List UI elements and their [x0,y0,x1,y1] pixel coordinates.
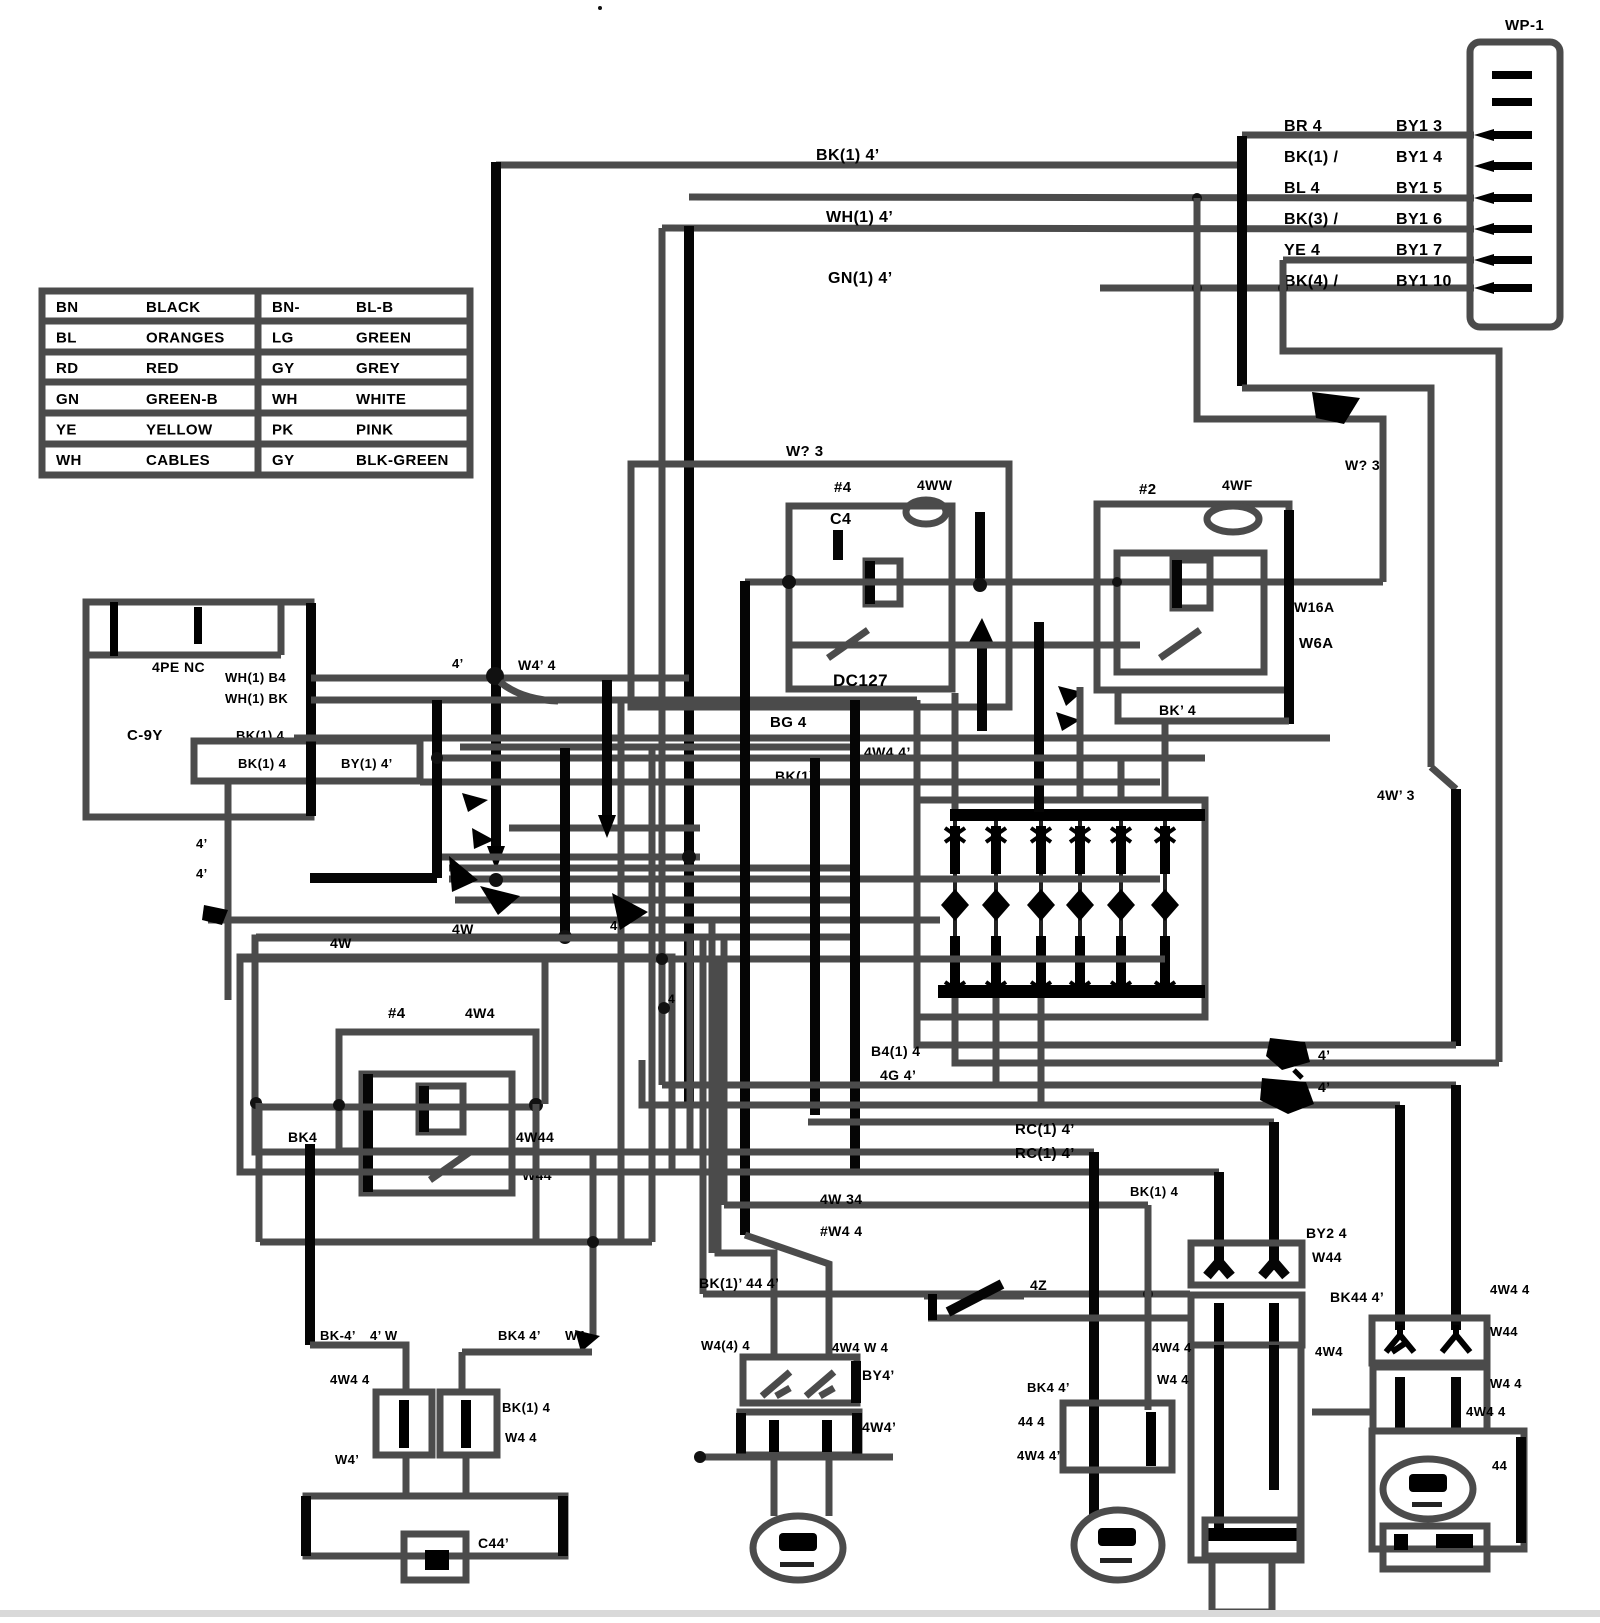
net pin7 drop [1283,260,1499,1062]
svg-text:GREY: GREY [356,360,400,377]
motor M2 body [1074,1510,1162,1580]
bus y937 [256,934,855,941]
svg-text:BK4 4’: BK4 4’ [498,1328,541,1343]
drop x1094 thick [1089,1152,1099,1515]
lever switch post [928,1294,937,1320]
relay1 outer box [631,464,1009,707]
svg-text:BY4’: BY4’ [862,1367,895,1383]
svg-text:44: 44 [1492,1458,1508,1473]
lamp C bottom bar [1204,1528,1299,1541]
motor M3 housing thick R [1516,1437,1526,1543]
wire y738 [294,735,1330,742]
fuse E box [1373,1367,1487,1431]
relay3 body [362,1074,512,1193]
svg-text:RC(1) 4’: RC(1) 4’ [1015,1121,1075,1138]
junction bm L [694,1451,706,1463]
connector pin 7 bar [1492,256,1532,264]
drop x462 [459,1352,466,1392]
wire y1318 [1024,1315,1191,1322]
fuse1 bracket [376,1392,432,1455]
svg-text:4W’ 3: 4W’ 3 [1377,787,1415,803]
svg-text:4W 34: 4W 34 [820,1191,862,1207]
svg-text:BN: BN [56,299,78,316]
drop x1274 to switchA [1269,1122,1279,1270]
svg-text:BK(1) /: BK(1) / [1284,149,1339,166]
svg-text:BK44 4’: BK44 4’ [1330,1289,1384,1305]
junction blob at x1340 corner [1312,392,1360,424]
junction tick WR [1294,1070,1302,1078]
svg-text:4Z: 4Z [1030,1277,1047,1293]
svg-text:GREEN-B: GREEN-B [146,391,218,408]
wire WH(1) long to pin5 [689,197,1474,198]
svg-text:BY2 4: BY2 4 [1306,1225,1347,1241]
svg-text:W4 4: W4 4 [1157,1372,1189,1387]
wire y721 under relay2 [1118,690,1289,721]
drop x259 below relay3 [256,1103,263,1242]
relay2 body [1117,553,1264,672]
table column divider [255,291,262,475]
stray mark top [598,6,602,10]
relay1 coil [866,561,900,604]
relay1 right post [977,630,987,731]
fuse m2 bar [1146,1412,1156,1466]
relay1 right post arrow [968,618,994,644]
drop fuse1 out [403,1455,410,1496]
svg-text:BL-B: BL-B [356,299,393,316]
lever switch blade [948,1284,1002,1312]
svg-text:DC127: DC127 [833,671,888,690]
relay1 coil bar [865,561,875,604]
arrow end x607 [598,815,616,838]
svg-text:BK(1) 4: BK(1) 4 [238,756,287,771]
svg-text:BR 4: BR 4 [1284,118,1322,135]
fuse E bar 2 [1451,1377,1461,1428]
svg-text:4W4 4: 4W4 4 [1466,1404,1506,1419]
diode column 4 [1066,821,1094,996]
left unit inner top divider [86,652,281,659]
matrix col5 stub up [1118,758,1125,800]
relay2 coil [1173,560,1210,608]
drop x593 [590,1152,597,1338]
svg-text:GREEN: GREEN [356,330,411,347]
matrix col3 stub [1038,998,1045,1105]
svg-text:CABLES: CABLES [146,452,210,469]
wire y1242 [260,1239,652,1246]
junction blob x1080 a [1058,686,1082,706]
lever switch base [924,1296,1024,1318]
sensor blob [425,1550,449,1570]
lamp C bottom frame [1205,1520,1300,1556]
wire y1412 stub [1312,1409,1373,1416]
table row divider 4 [42,410,470,417]
left unit thick right edge [306,603,316,816]
svg-text:GY: GY [272,360,294,377]
relay1 right top post [975,512,985,588]
svg-text:4W4: 4W4 [1315,1344,1343,1359]
svg-text:W4(4) 4: W4(4) 4 [701,1338,750,1353]
tangle junction d [682,850,696,864]
bottom-left box [306,1496,565,1556]
svg-text:YELLOW: YELLOW [146,421,213,438]
junction y582 x980 [973,578,987,592]
junction W6-x1283 [1278,283,1288,293]
table row divider 2 [42,349,470,356]
svg-text:W4’: W4’ [335,1452,359,1467]
relay3 thick left edge [363,1074,373,1192]
svg-text:W4’ 4: W4’ 4 [518,657,556,673]
svg-text:WHITE: WHITE [356,391,406,408]
junction W4-x1242 [1237,224,1247,234]
svg-text:4’: 4’ [196,836,208,851]
drop x718 jog to x774 [718,959,774,1357]
svg-text:4W4 4: 4W4 4 [1490,1282,1530,1297]
bus y920 [208,917,940,924]
connector pin 3 bar [1492,131,1532,139]
svg-text:BK(1)’ 44 4’: BK(1)’ 44 4’ [699,1275,779,1291]
jog x1429 to x1456 [1431,767,1456,789]
wire y1157 to x1219 [255,1169,1219,1176]
svg-text:BY1 3: BY1 3 [1396,118,1442,135]
svg-text:BL: BL [56,330,77,347]
wire BK(1) row1 to pin3 [1242,132,1474,139]
svg-text:BG 4: BG 4 [770,714,807,731]
svg-text:#4: #4 [834,479,852,496]
left unit lower box [194,741,420,781]
junction blob x228 [202,905,228,925]
junction x662 y1010 [658,1002,670,1014]
svg-text:W4: W4 [565,1328,586,1343]
relay1 left post [833,530,843,560]
switch bm box [743,1357,857,1403]
svg-text:4: 4 [668,992,675,1006]
svg-text:YE: YE [56,421,77,438]
drop bm motor R [826,1455,833,1516]
relay2 coil bar [1172,560,1182,608]
bus y1122 [808,1119,1274,1126]
drop x712 [709,920,716,1253]
wire y582 through coil [745,579,1383,586]
relay1 body [789,506,952,689]
svg-text:4’: 4’ [1318,1047,1330,1063]
wire YE(1) to pin7 [1283,257,1474,264]
motor M3 dash [1412,1502,1442,1507]
wire color code table frame [42,291,470,475]
relay3 outer box B [240,957,672,1172]
connector pin 5 arrow [1474,192,1494,204]
svg-text:BK4 4’: BK4 4’ [1027,1380,1070,1395]
connector pin 8 bar [1492,284,1532,292]
svg-text:4’: 4’ [196,866,208,881]
svg-text:GN(1) 4’: GN(1) 4’ [828,270,893,287]
svg-text:W? 3: W? 3 [786,443,823,460]
junction blob x1080 b [1056,712,1080,731]
switch A box [1191,1243,1302,1285]
wire y700 [311,697,917,704]
bus y1063 from matrix [955,998,1499,1063]
left unit box [86,602,311,817]
connector pin 8 arrow [1474,282,1494,294]
svg-text:4: 4 [610,918,618,933]
left unit inner right divider [278,602,285,655]
drop x1148 [1145,1205,1152,1410]
connector pin 7 arrow [1474,254,1494,266]
junction x496 y678 [486,667,504,685]
bus y1085 [662,1082,1456,1089]
wire BR(1) long top [496,162,1242,169]
terminal bar 2 [194,607,202,644]
thick drop x565 [560,748,570,937]
junction W6-x1197 [1192,283,1202,293]
table row divider 1 [42,318,470,325]
drop x1219 to switchA [1214,1172,1224,1270]
junction x662 y959 [656,953,668,965]
table row divider 3 [42,379,470,386]
fuse2 bracket [440,1392,497,1455]
svg-text:YE 4: YE 4 [1284,242,1320,259]
svg-text:WH(1) 4’: WH(1) 4’ [826,209,893,226]
junction blob WR lower [1260,1078,1314,1114]
connector pin 1 bar [1492,71,1532,79]
connector pin 2 bar [1492,98,1532,106]
thick drop x855 [850,700,860,1170]
jog x745 to x829 [745,1235,829,1357]
tangle blob 4 [612,893,648,930]
relay2 contact lever [1160,630,1200,658]
svg-text:W4 4: W4 4 [1490,1376,1522,1391]
drop x1456 to switchD [1451,1085,1461,1330]
wire y1205 [724,1202,1148,1209]
thick x437 corner [310,873,437,883]
tangle blob 5 [462,793,488,812]
svg-text:BL 4: BL 4 [1284,180,1320,197]
matrix col6 stub up [1162,721,1169,800]
svg-text:#2: #2 [1139,481,1157,498]
svg-text:RED: RED [146,360,179,377]
svg-text:C4: C4 [830,511,851,528]
motor M1 body [753,1516,843,1580]
svg-text:4W4: 4W4 [465,1005,495,1021]
svg-text:4’: 4’ [1318,1079,1330,1095]
svg-text:BY1 7: BY1 7 [1396,242,1442,259]
svg-text:RC(1) 4’: RC(1) 4’ [1015,1145,1075,1162]
matrix col1 stub up [952,693,959,812]
svg-text:#4: #4 [388,1005,406,1022]
svg-text:BK4: BK4 [288,1129,317,1145]
switch A contact 1 [1207,1250,1231,1276]
table row divider 5 [42,441,470,448]
switch D contact 2 [1442,1325,1470,1352]
wire BK(2) to pin8 [1100,285,1474,292]
drop x536 below relay3 [533,1104,540,1242]
bus y959 [241,956,1165,963]
fuse B box [1191,1295,1302,1345]
relay2 oval marker [1207,506,1259,532]
relay2 outer box [1097,504,1289,690]
thick bus x1456 [1451,789,1461,1046]
svg-text:4WF: 4WF [1222,477,1253,493]
fuse bm bar1 [769,1420,779,1452]
tangle junction c [431,752,443,764]
switch bm contact 1 [762,1372,790,1396]
svg-text:4W: 4W [330,935,352,951]
motor M1 symbol [779,1533,817,1551]
svg-text:W6A: W6A [1299,635,1334,652]
bus y758 [437,755,1205,762]
relay3 coil bar [419,1086,429,1132]
switch D box [1372,1318,1487,1363]
wire y1152 [255,1149,1094,1156]
connector pin 6 arrow [1474,223,1494,235]
svg-text:C44’: C44’ [478,1535,509,1551]
matrix bottom bus bar [938,985,1205,998]
svg-text:#W4 4: #W4 4 [820,1223,862,1239]
motor M3 body [1383,1459,1473,1519]
lamp C bar 2 [1269,1345,1279,1490]
tangle blob 6 [472,828,494,849]
bus y868 [449,865,855,872]
connector pin 4 arrow [1474,160,1494,172]
wire y678 [311,675,689,682]
svg-text:BK’ 4: BK’ 4 [1159,702,1196,718]
thick feed x1039 [1034,622,1044,812]
svg-text:W? 3: W? 3 [1345,457,1380,473]
diode matrix box [917,800,1205,1017]
svg-text:4W4 4’: 4W4 4’ [1017,1448,1061,1463]
relay1 oval marker [906,500,946,524]
wire y645 contacts [787,642,1140,649]
svg-text:BK-4’: BK-4’ [320,1328,356,1343]
br box bar [1436,1534,1473,1548]
thick drop x607 [602,680,612,823]
tangle junction b [558,930,572,944]
fuse bm thick L [736,1413,746,1455]
matrix col2 stub [993,998,1000,1085]
motor M1 dash [780,1562,814,1567]
matrix top bus bar [950,809,1205,821]
relay3 coil [419,1086,463,1132]
bus y782 [420,779,1160,786]
thick bus x1242 [1237,136,1247,386]
svg-text:PINK: PINK [356,421,393,438]
bus y879 [449,876,1160,883]
wire y1294 [703,1291,1190,1298]
svg-text:BK(1) 4’: BK(1) 4’ [816,147,880,164]
svg-text:4’: 4’ [452,656,464,671]
scan artifact band [0,1610,1600,1617]
svg-text:PK: PK [272,421,294,438]
tangle blob 1 [449,856,478,892]
bus y747 [460,744,855,751]
switch bm thick R [851,1361,861,1403]
bus y900 [455,897,855,904]
diode column 6 [1151,821,1179,996]
matrix col4 stub up [1077,687,1084,800]
relay1 contact lever [828,630,868,658]
bottom right small box [1383,1526,1487,1569]
svg-text:WH: WH [56,452,82,469]
drop x545 to relay3 [542,959,549,1104]
junction W3-x1197 [1192,193,1202,203]
thick drop x745 [740,581,750,1235]
junction blob WR upper [1266,1038,1310,1070]
svg-text:W44: W44 [1312,1249,1342,1265]
svg-text:B4(1) 4: B4(1) 4 [871,1043,920,1059]
junction y1107 left [333,1099,345,1111]
drop bm motor L [771,1455,778,1516]
terminal bar 1 [110,602,118,656]
net x1197 over to x1383 [1197,198,1383,582]
svg-text:W16A: W16A [1294,599,1335,615]
bus corner x1242 to x1431 [1242,388,1431,767]
wire y1457 bm [700,1454,893,1461]
svg-text:4W4 W 4: 4W4 W 4 [832,1340,889,1355]
connector pin 5 bar [1492,194,1532,202]
motor M3 housing [1372,1431,1524,1549]
svg-text:4W4 4: 4W4 4 [1152,1340,1192,1355]
connector pin 4 bar [1492,162,1532,170]
svg-text:GN: GN [56,391,79,408]
switch bm contact 2 [806,1372,834,1396]
svg-text:BLK-GREEN: BLK-GREEN [356,452,449,469]
fuse E bar 1 [1395,1377,1405,1428]
motor M3 symbol [1409,1474,1447,1492]
svg-text:4G 4’: 4G 4’ [880,1067,916,1083]
bus y828 [509,825,700,832]
fuse bm box [740,1412,859,1455]
diode column 5 [1107,821,1135,996]
switch A contact 2 [1262,1250,1286,1276]
svg-text:BY1 10: BY1 10 [1396,273,1452,290]
fuse2 element [461,1400,471,1448]
feeder x662 [659,228,666,1085]
svg-text:BK(1) 4: BK(1) 4 [1130,1184,1179,1199]
svg-text:4W4 4: 4W4 4 [330,1372,370,1387]
svg-text:4W44: 4W44 [516,1129,554,1145]
connector pin 6 bar [1492,225,1532,233]
svg-text:44 4: 44 4 [1018,1414,1045,1429]
fuse bm bar2 [822,1420,832,1452]
stub x228 down [225,781,232,1000]
diode column 1 [941,821,969,996]
svg-text:GY: GY [272,452,294,469]
wire GN(1) long to pin6 [662,228,1474,229]
drop x724 [721,940,728,1205]
bus y1105 [642,1060,1400,1105]
svg-text:BY1 4: BY1 4 [1396,149,1442,166]
svg-text:ORANGES: ORANGES [146,330,225,347]
lamp C bar 1 [1214,1345,1224,1530]
svg-text:BK(1) 4: BK(1) 4 [502,1400,551,1415]
svg-text:W44: W44 [1490,1324,1518,1339]
fuse m2 box [1063,1403,1172,1470]
relay3 contact lever [430,1152,470,1180]
drop x621 [618,700,625,1242]
svg-text:4W4’: 4W4’ [862,1419,896,1435]
lamp C box [1191,1345,1301,1560]
thick feeder x496 [491,162,501,852]
svg-text:BY1 5: BY1 5 [1396,180,1442,197]
svg-text:WP-1: WP-1 [1505,17,1544,34]
bus y857 [437,854,700,861]
thick feeder x689 [684,226,694,1108]
thick drop x815 [810,758,820,1115]
junction W3-x1242 [1237,193,1247,203]
svg-text:BLACK: BLACK [146,299,201,316]
svg-text:BK(3) /: BK(3) / [1284,211,1339,228]
junction y582 x1117 [1112,577,1122,587]
svg-text:BY1 6: BY1 6 [1396,211,1442,228]
svg-text:BK(4) /: BK(4) / [1284,273,1339,290]
